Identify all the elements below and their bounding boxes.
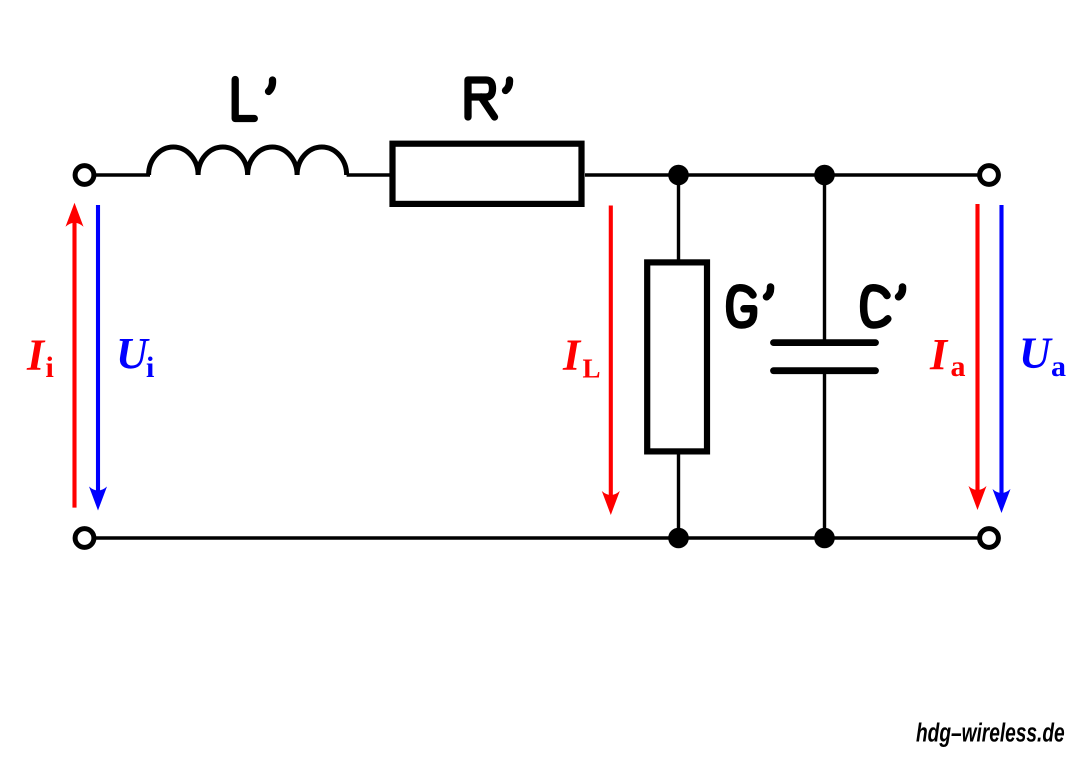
svg-text:I: I (26, 331, 46, 380)
svg-text:I: I (929, 330, 949, 379)
resistor G1 (conductance) (647, 262, 707, 451)
node top C junction (814, 165, 835, 186)
svg-text:a: a (1051, 350, 1066, 383)
terminal input bottom (75, 529, 94, 548)
svg-text:L: L (583, 354, 601, 384)
voltage arrow Ua (down) (993, 205, 1011, 513)
wire bottom rail (96, 536, 978, 539)
voltage arrow Ui (down) (89, 205, 107, 511)
watermark hdg-wireless.de (916, 719, 1065, 747)
wire G resistor to bottom node (677, 451, 680, 538)
label L' (235, 80, 272, 119)
svg-text:U: U (116, 329, 150, 378)
current arrow IL (down) (602, 206, 620, 516)
wire top node to G resistor (677, 175, 680, 260)
label R' (468, 80, 510, 117)
svg-text:hdg–wireless.de: hdg–wireless.de (916, 719, 1065, 747)
label G' (730, 287, 771, 325)
wire top-left from input terminal to inductor (96, 173, 150, 176)
svg-text:i: i (46, 351, 54, 384)
svg-text:I: I (562, 331, 582, 380)
resistor R1 (393, 144, 582, 204)
current arrow Ii (up) (66, 203, 84, 508)
capacitor C1 bottom plate (774, 367, 876, 374)
wire capacitor to bottom node (823, 374, 826, 538)
terminal output bottom (980, 529, 999, 548)
terminal input top (75, 166, 94, 185)
wire inductor to resistor (347, 173, 390, 176)
current arrow Ia (down) (969, 204, 987, 510)
node bottom G junction (668, 528, 689, 549)
inductor L1 (149, 147, 347, 175)
svg-text:a: a (951, 350, 966, 383)
capacitor C1 top plate (774, 339, 876, 346)
terminal output top (980, 166, 999, 185)
svg-text:U: U (1019, 329, 1053, 378)
wire top node to capacitor (823, 175, 826, 340)
svg-text:i: i (146, 351, 154, 384)
wire resistor to output terminal (585, 173, 978, 176)
node bottom C junction (814, 528, 835, 549)
node top G junction (668, 165, 689, 186)
label C' (864, 287, 903, 325)
